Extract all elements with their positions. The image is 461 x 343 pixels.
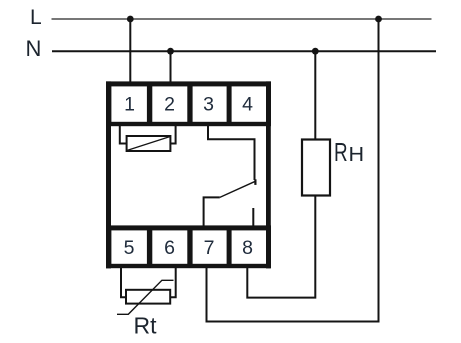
junction L to right branch — [375, 16, 382, 23]
switch contact: tip tick — [254, 179, 256, 185]
switch contact: terminal 8 stub — [252, 208, 254, 228]
switch contact: terminal 3 lead — [208, 124, 255, 180]
wire L dot down to terminal 1 — [129, 19, 131, 85]
svg-text:3: 3 — [203, 94, 214, 116]
svg-text:H: H — [348, 144, 364, 166]
wire L line — [52, 18, 432, 20]
wire N line — [52, 50, 436, 52]
junction L to terminal 1 — [127, 16, 134, 23]
relay coil K1 diagonal — [127, 137, 170, 151]
relay coil K1 — [127, 136, 171, 151]
svg-text:R: R — [334, 138, 348, 166]
wire terminal 5 down to Rt — [121, 265, 127, 297]
svg-text:2: 2 — [164, 94, 175, 116]
svg-text:Rt: Rt — [134, 313, 158, 339]
junction N to terminal 2 — [167, 48, 174, 55]
wire terminal 8 down right up to RH bottom — [247, 195, 315, 298]
relay coil K1 leads — [120, 124, 127, 144]
wire N dot down to RH top — [314, 51, 316, 140]
switch contact: blade — [220, 181, 256, 197]
svg-text:1: 1 — [124, 94, 135, 116]
svg-text:7: 7 — [204, 237, 215, 259]
wire N dot down to terminal 2 — [170, 51, 172, 85]
thermistor Rt diagonal — [117, 280, 174, 314]
terminal row top — [106, 81, 271, 126]
svg-text:L: L — [30, 6, 42, 29]
svg-text:8: 8 — [242, 237, 253, 259]
thermistor Rt — [126, 290, 170, 304]
wire L dot down right side then left to terminal 7 — [207, 19, 379, 322]
wire terminal 6 down to Rt — [170, 265, 176, 297]
svg-text:6: 6 — [164, 237, 175, 259]
relay outer box right side — [266, 81, 271, 268]
svg-text:4: 4 — [242, 94, 253, 116]
relay outer box left side — [106, 81, 111, 268]
terminal row bottom — [106, 225, 271, 268]
switch contact: common to terminal 7 — [204, 197, 220, 227]
junction N to RH — [312, 48, 319, 55]
resistor RH — [302, 140, 330, 196]
svg-text:5: 5 — [124, 237, 135, 259]
svg-text:N: N — [26, 36, 42, 61]
